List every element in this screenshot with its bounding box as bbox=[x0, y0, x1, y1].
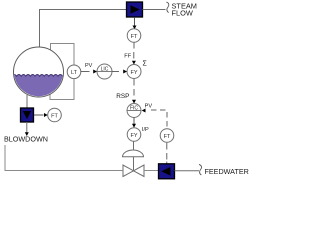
blowdown flow transmitter FT bbox=[48, 108, 62, 122]
valve stem bbox=[133, 157, 135, 171]
svg-text:FEEDWATER: FEEDWATER bbox=[205, 167, 249, 176]
steam flow transmitter FT bbox=[127, 29, 141, 43]
blowdown wire from drum bbox=[26, 95, 28, 108]
svg-text:PV: PV bbox=[145, 104, 153, 110]
level transmitter LT bbox=[67, 65, 81, 79]
I/P converter FY bbox=[127, 128, 141, 142]
svg-text:LIC: LIC bbox=[101, 67, 109, 73]
svg-text:FT: FT bbox=[51, 113, 58, 119]
wire FE to steam FT arrow bbox=[134, 17, 136, 26]
feedwater pipe left bbox=[5, 145, 123, 171]
feedwater pipe right bbox=[144, 170, 159, 172]
wire blowdown FE to FT arrow bbox=[34, 114, 44, 116]
svg-text:PV: PV bbox=[85, 63, 93, 69]
dashed PV signal feedwater FT to FIC bbox=[142, 109, 146, 113]
svg-text:I/P: I/P bbox=[142, 127, 149, 133]
svg-text:RSP: RSP bbox=[116, 93, 129, 100]
wire FIC to I/P converter bbox=[133, 118, 135, 125]
svg-text:FF: FF bbox=[124, 54, 131, 60]
svg-text:FT: FT bbox=[131, 34, 138, 40]
steam line break squiggle bbox=[166, 2, 169, 13]
wire I/P to valve actuator bbox=[133, 141, 135, 151]
steam flow element FE square bbox=[127, 2, 143, 17]
svg-text:FY: FY bbox=[130, 133, 137, 139]
svg-text:Σ: Σ bbox=[143, 61, 148, 68]
svg-text:LT: LT bbox=[71, 70, 78, 76]
drum vessel bbox=[14, 47, 64, 97]
svg-text:FY: FY bbox=[130, 70, 137, 76]
wire feedwater line to label bbox=[175, 170, 200, 172]
dashed signal LIC to FY bbox=[112, 71, 119, 73]
dashed RSP signal FY to FIC bbox=[133, 79, 135, 86]
blowdown outlet wire with arrow bbox=[26, 122, 28, 133]
wire level tap bracket to LT bbox=[50, 44, 74, 100]
wire steam riser from drum top bbox=[40, 10, 127, 49]
svg-text:FIC: FIC bbox=[130, 106, 138, 112]
dashed feedforward signal FT to FY bbox=[133, 43, 135, 49]
blowdown flow element FE square bbox=[21, 108, 34, 122]
svg-text:FT: FT bbox=[164, 134, 171, 140]
control valve body bbox=[123, 165, 144, 177]
dashed signal LT to LIC with PV label bbox=[81, 71, 90, 73]
wire steam line to label bbox=[143, 9, 166, 11]
svg-text:FLOW: FLOW bbox=[172, 9, 193, 18]
valve actuator diaphragm bbox=[123, 150, 144, 157]
feedwater line break squiggle bbox=[199, 164, 202, 175]
level controller LIC bbox=[97, 64, 112, 79]
svg-text:BLOWDOWN: BLOWDOWN bbox=[4, 134, 48, 143]
dashed signal FT to feedwater FE bbox=[166, 143, 168, 150]
summer FY bbox=[127, 65, 141, 79]
feedwater flow transmitter FT bbox=[160, 129, 174, 143]
flow controller FIC bbox=[127, 104, 141, 118]
feedwater flow element FE square bbox=[159, 164, 175, 179]
